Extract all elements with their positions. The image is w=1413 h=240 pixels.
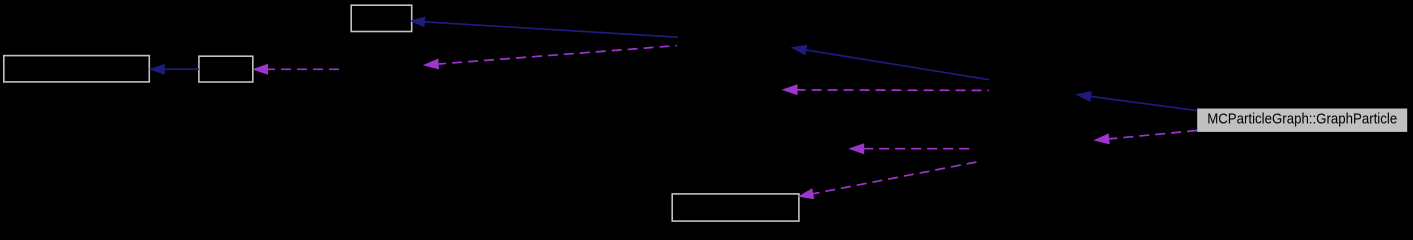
inheritance edge e3 (solid blue, left pair) xyxy=(149,64,199,75)
svg-text:MCParticleGraph::GraphParticle: MCParticleGraph::GraphParticle xyxy=(1207,111,1397,128)
usage edge e9 (dashed orchid, into bottom box) xyxy=(798,162,977,199)
hidden linked node (black on black, between e4 and e2) xyxy=(339,53,423,79)
usage edge e2 (dashed orchid, to hidden mid node) xyxy=(423,46,677,70)
hidden linked node MCParticle (black on black, center, tails of e5/e6) xyxy=(989,77,1076,103)
usage edge e6 (dashed orchid, center horizontal) xyxy=(782,84,990,95)
node (unlinked class, top) xyxy=(351,5,412,31)
node (unlinked class, bottom) xyxy=(672,194,799,221)
node (unlinked class, left) xyxy=(199,56,253,82)
usage edge e10 (dashed orchid, from GraphParticle) xyxy=(1093,131,1197,145)
inheritance edge e1 (solid blue, to top box) xyxy=(410,16,679,37)
inheritance edge e7 (solid blue, from GraphParticle) xyxy=(1075,91,1196,110)
hidden linked node (black on black, lower center, tails of e8/e9) xyxy=(970,136,1093,162)
node (unlinked class, far left) xyxy=(4,56,150,82)
hidden linked node (black on black, center top, tails of e1/e2) xyxy=(678,34,792,60)
node MCParticleGraph::GraphParticle (current, highlighted) xyxy=(1197,109,1407,132)
usage edge e4 (dashed orchid, into left box) xyxy=(252,64,339,75)
usage edge e8 (dashed orchid, lower center horizontal) xyxy=(848,143,969,154)
inheritance edge e5 (solid blue, long center) xyxy=(791,45,989,80)
